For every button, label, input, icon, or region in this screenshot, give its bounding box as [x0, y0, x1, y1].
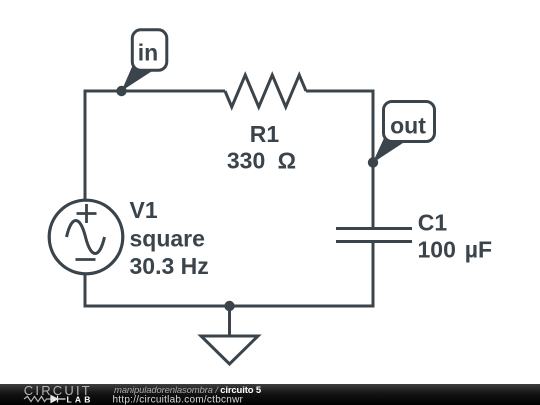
- wire left vertical (V1 top lead): [84, 90, 87, 201]
- wire right vertical (C1 bottom lead): [372, 242, 375, 308]
- svg-text:out: out: [390, 113, 426, 139]
- svg-text:330 Ω: 330 Ω: [227, 148, 296, 174]
- svg-text:R1: R1: [250, 121, 280, 147]
- flag in: [122, 30, 167, 91]
- logo resistor zigzag: [24, 396, 51, 401]
- footer bar: [0, 384, 540, 405]
- wire top-left horizontal: [85, 90, 225, 93]
- wire bottom horizontal: [85, 305, 373, 308]
- svg-text:in: in: [138, 40, 158, 66]
- svg-text:V1: V1: [130, 197, 158, 223]
- logo diode: [51, 396, 66, 403]
- svg-text:LAB: LAB: [67, 395, 94, 405]
- wire right vertical (C1 top lead): [372, 91, 374, 228]
- wire left vertical (V1 bottom lead): [84, 275, 87, 308]
- flag out: [373, 102, 435, 164]
- ground: [201, 306, 258, 364]
- node ground (junction dot): [224, 301, 234, 311]
- wire top-right horizontal: [306, 90, 373, 93]
- svg-text:100 µF: 100 µF: [418, 237, 493, 263]
- voltage source V1: [49, 200, 123, 274]
- svg-text:30.3 Hz: 30.3 Hz: [130, 253, 209, 279]
- capacitor C1: [336, 229, 412, 242]
- node in (junction dot): [116, 86, 126, 96]
- svg-text:square: square: [130, 226, 205, 252]
- resistor R1: [225, 75, 306, 107]
- node out (junction dot): [368, 157, 378, 167]
- svg-text:C1: C1: [418, 210, 448, 236]
- svg-text:http://circuitlab.com/ctbcnwr: http://circuitlab.com/ctbcnwr: [113, 395, 244, 405]
